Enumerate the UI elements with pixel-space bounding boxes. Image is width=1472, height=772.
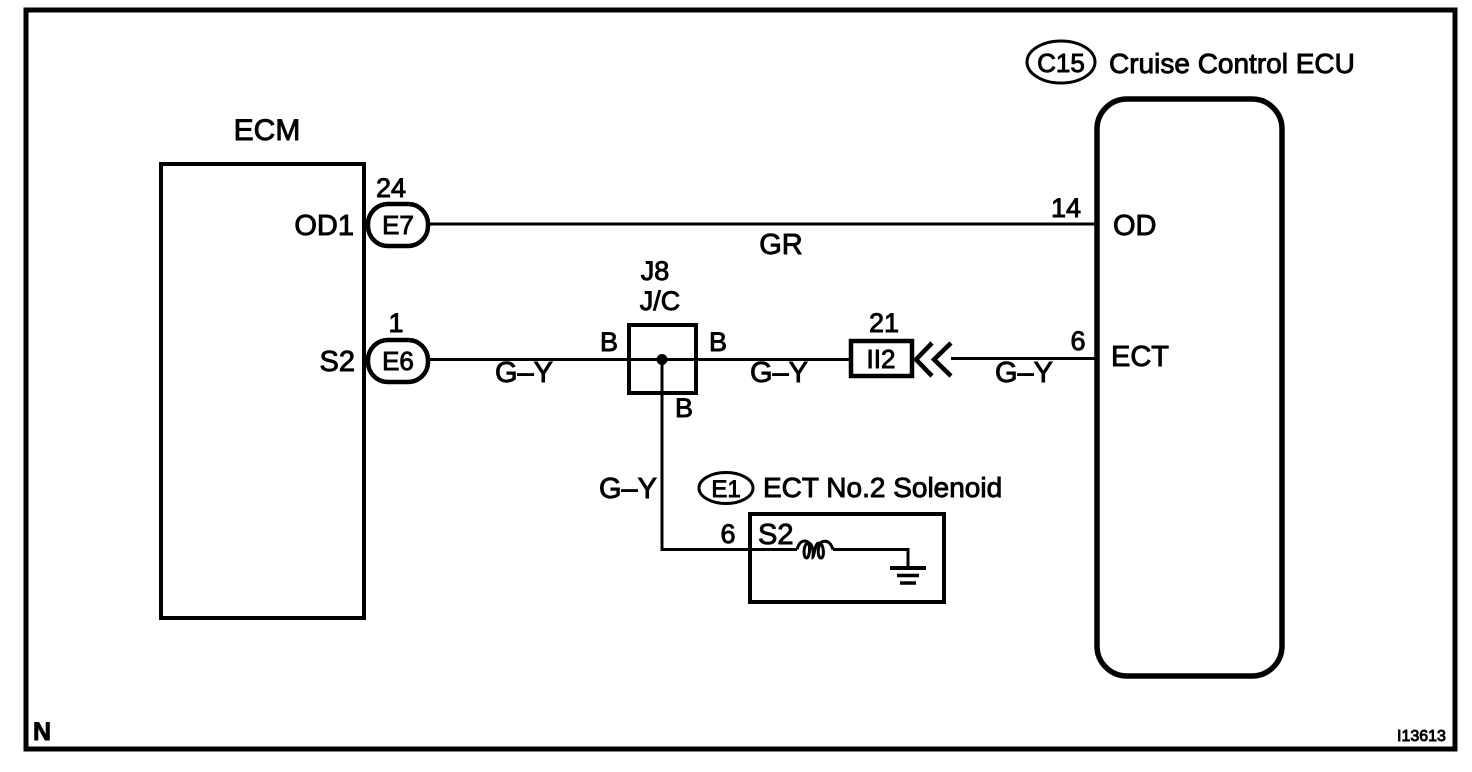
inline connector chevron arrows xyxy=(916,343,932,376)
svg-text:OD1: OD1 xyxy=(294,210,354,242)
svg-text:C15: C15 xyxy=(1037,48,1085,78)
svg-text:21: 21 xyxy=(869,308,899,338)
svg-text:N: N xyxy=(33,718,51,746)
wire B from junction J8 down to solenoid xyxy=(662,360,797,550)
svg-text:GR: GR xyxy=(759,229,803,261)
svg-text:14: 14 xyxy=(1051,193,1081,223)
svg-text:1: 1 xyxy=(388,308,403,338)
svg-text:G–Y: G–Y xyxy=(995,357,1053,389)
wire from coil to ground xyxy=(833,550,908,569)
connector label E1 xyxy=(699,473,753,504)
svg-text:G–Y: G–Y xyxy=(750,357,808,389)
svg-text:G–Y: G–Y xyxy=(495,357,553,389)
svg-text:J/C: J/C xyxy=(640,286,681,316)
svg-text:I13613: I13613 xyxy=(1397,728,1446,745)
wire GR from E7 to cruise ECU pin 14 xyxy=(428,223,1097,226)
connector E7 xyxy=(368,204,428,246)
svg-text:S2: S2 xyxy=(758,519,793,551)
svg-text:B: B xyxy=(675,393,693,423)
ground xyxy=(890,566,926,570)
wire G-Y from chevrons to cruise ECU pin 6 xyxy=(951,357,1097,360)
svg-text:ECM: ECM xyxy=(234,114,301,147)
svg-text:ECT: ECT xyxy=(1111,341,1169,373)
connector label C15 xyxy=(1027,41,1095,83)
wire through junction J8 xyxy=(629,358,851,361)
svg-text:24: 24 xyxy=(376,173,406,203)
svg-text:E1: E1 xyxy=(711,476,740,503)
junction dot xyxy=(657,354,668,365)
svg-text:B: B xyxy=(709,327,727,357)
ECM box xyxy=(161,164,364,618)
svg-text:E6: E6 xyxy=(382,346,414,376)
svg-text:ECT No.2 Solenoid: ECT No.2 Solenoid xyxy=(763,472,1002,503)
svg-text:B: B xyxy=(600,327,618,357)
connector E6 xyxy=(368,340,428,382)
svg-text:S2: S2 xyxy=(320,346,355,378)
svg-text:E7: E7 xyxy=(382,210,414,240)
wire G-Y from E6 to junction J8 xyxy=(428,358,629,361)
junction J8 box xyxy=(629,325,696,393)
svg-text:Cruise Control ECU: Cruise Control ECU xyxy=(1109,48,1355,79)
ECT No.2 solenoid box xyxy=(750,514,944,602)
svg-text:J8: J8 xyxy=(641,256,670,286)
svg-text:II2: II2 xyxy=(867,344,896,374)
svg-text:6: 6 xyxy=(1070,326,1085,356)
svg-text:6: 6 xyxy=(720,519,735,549)
connector II2 xyxy=(851,341,912,376)
svg-text:G–Y: G–Y xyxy=(599,473,657,505)
svg-text:OD: OD xyxy=(1113,210,1157,242)
solenoid coil L1 xyxy=(797,541,833,558)
cruise control ECU box xyxy=(1097,99,1282,676)
